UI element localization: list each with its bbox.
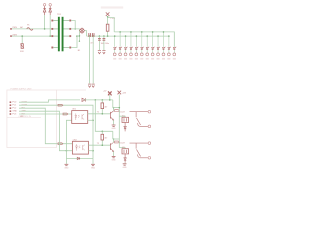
- wire base T1: [88, 113, 111, 115]
- wire LED stub 5: [135, 50, 137, 53]
- transformer pin left 3: [51, 35, 53, 37]
- LED D11: [168, 47, 171, 50]
- svg-text:T2: T2: [97, 143, 99, 145]
- svg-text:4k7: 4k7: [104, 138, 107, 140]
- pin circle NC K2: [148, 157, 151, 160]
- transformer pin left 2: [51, 28, 53, 30]
- wire LED hanger 9: [157, 36, 159, 47]
- connector pin JP1-1: [10, 101, 12, 103]
- supply +12V symbol: [106, 12, 110, 16]
- label pin 10: [162, 58, 165, 60]
- transformer pin right 3: [69, 35, 71, 37]
- wire emitter T2: [113, 152, 115, 156]
- wire ch2 feed: [95, 100, 113, 131]
- net flag row2: [58, 104, 63, 106]
- junction dot hanger 3: [125, 35, 127, 37]
- junction dot hanger 8: [152, 31, 154, 33]
- junction dot hanger 2: [119, 31, 121, 33]
- ground under link left: [65, 164, 69, 165]
- wire bridge output: [85, 31, 87, 36]
- wire row5: [19, 113, 72, 115]
- wire rail corner K1: [112, 100, 114, 108]
- wire AC line L: [11, 28, 52, 30]
- resistor R1: [101, 100, 103, 114]
- label pin 5: [135, 58, 138, 60]
- svg-text:GND: GND: [12, 111, 17, 113]
- capacitor C1: [89, 35, 91, 37]
- wire AC line N: [11, 35, 52, 37]
- svg-text:GND: GND: [123, 167, 128, 169]
- fuse F1: [27, 28, 33, 31]
- svg-text:K1: K1: [122, 115, 124, 117]
- junction dot hanger 4: [130, 31, 132, 33]
- wire LED hanger 11: [168, 36, 170, 47]
- transformer pin left 4: [51, 47, 53, 49]
- pin circle F3: [49, 4, 51, 6]
- label pin 11: [167, 58, 170, 60]
- pin circle out 2: [119, 53, 122, 56]
- LED D2: [119, 47, 122, 50]
- gnd arrow C1: [88, 84, 91, 87]
- wire LED stub 1: [114, 50, 116, 53]
- wire LED stub 10: [162, 50, 164, 53]
- junction dot bridge rail: [79, 35, 81, 37]
- supply +5V mid symbol: [108, 91, 112, 95]
- wire LED stub 11: [168, 50, 170, 53]
- wire opto2 emitter stub: [88, 150, 93, 152]
- pin circle out 5: [135, 53, 138, 56]
- pin circle out 3: [124, 53, 127, 56]
- svg-text:AC: AC: [20, 26, 23, 29]
- optocoupler OK1: [72, 111, 88, 124]
- supply +12V coils symbol: [118, 91, 122, 95]
- wire LED hanger 10: [162, 32, 164, 47]
- svg-text:K2: K2: [122, 147, 124, 149]
- junction dot hanger 1: [114, 35, 116, 37]
- net flag row3: [58, 143, 63, 145]
- wire rail to coil drop K1: [113, 107, 120, 109]
- junction dot hanger 10: [163, 31, 165, 33]
- connector pin JP1-4: [10, 110, 12, 112]
- wire emitter T1: [113, 120, 115, 124]
- wire LED stub 2: [119, 50, 121, 53]
- junction dot hanger 9: [157, 35, 159, 37]
- wire coil supply drop: [118, 95, 120, 148]
- fuse F3: [49, 6, 51, 15]
- capacitor C3: [99, 35, 101, 37]
- wire varistor drop: [21, 36, 23, 44]
- pin circle NC K1: [148, 125, 151, 128]
- label pin 2: [119, 58, 122, 60]
- wire row4: [19, 111, 72, 151]
- optocoupler OK2: [72, 141, 88, 154]
- pin circle out 4: [130, 53, 133, 56]
- wire +5V stem: [109, 95, 111, 100]
- label pin 9: [157, 58, 160, 60]
- svg-text:POWER SUPPLY UNIT: POWER SUPPLY UNIT: [11, 88, 33, 90]
- bridge rectifier B1: [79, 28, 84, 33]
- junction dot base T2: [102, 144, 104, 146]
- LED D6: [141, 47, 144, 50]
- junction dot hanger 5: [136, 35, 138, 37]
- wire LED hanger 8: [152, 32, 154, 47]
- connector pin JP1-3: [10, 107, 12, 109]
- wire LED hanger 12: [173, 32, 175, 47]
- wire gnd stub left2: [65, 158, 67, 164]
- capacitor C4: [103, 35, 105, 37]
- junction dot R R1: [102, 99, 104, 101]
- junction dot hanger 6: [141, 31, 143, 33]
- pin circle out 9: [157, 53, 160, 56]
- net flag coil K2: [115, 141, 120, 143]
- svg-text:GND: GND: [112, 128, 117, 130]
- gnd arrow C3: [98, 51, 101, 54]
- transformer pin right 1: [69, 20, 71, 22]
- junction dot hanger 7: [146, 35, 148, 37]
- capacitor C2: [92, 35, 94, 37]
- wire coil feed K2: [119, 148, 125, 149]
- diode freewheel K2: [124, 154, 126, 163]
- wire base T2: [88, 144, 110, 146]
- wire LED hanger 1: [114, 36, 116, 47]
- supply stem T1: [108, 92, 112, 96]
- wire rail1: [84, 99, 113, 101]
- ground coil2: [123, 164, 127, 165]
- svg-text:T1: T1: [97, 112, 99, 114]
- wire bridge down: [78, 31, 80, 42]
- wire coil2 gnd stub: [124, 162, 126, 165]
- junction dot +5V rail: [109, 99, 111, 101]
- pin circle out 11: [167, 53, 170, 56]
- wire LED hanger 3: [125, 36, 127, 47]
- wire rail to coil drop K2: [113, 138, 120, 140]
- junction dot F3: [49, 35, 51, 37]
- wire opto1 cathode down: [66, 120, 71, 158]
- junction dot coil feed 1: [119, 107, 121, 109]
- svg-text:GND: GND: [112, 160, 117, 162]
- svg-text:GND: GND: [64, 168, 69, 170]
- svg-text:BC547: BC547: [119, 143, 125, 145]
- varistor R7: [21, 44, 23, 49]
- wire coil feed K1: [119, 116, 125, 117]
- pin AC N: [10, 35, 12, 37]
- label pin 7: [146, 58, 149, 60]
- wire secondary pin1: [71, 21, 75, 29]
- relay coil K2: [122, 149, 129, 154]
- transformer TR1 core bar left: [58, 17, 60, 52]
- wire collector T2: [113, 139, 115, 142]
- junction dot bridge bottom: [79, 41, 80, 42]
- pin circle NO K1: [148, 110, 151, 113]
- pin circle F2: [43, 4, 45, 6]
- transformer pin right 4: [69, 47, 71, 49]
- relay contact K1: [130, 112, 148, 127]
- svg-text:+12V: +12V: [122, 93, 127, 95]
- wire LED hanger 4: [130, 32, 132, 47]
- junction dot secondary bottom: [76, 35, 78, 37]
- label pin 3: [124, 58, 127, 60]
- label pin 4: [129, 58, 132, 60]
- LED D8: [152, 47, 155, 50]
- fuse F2: [44, 6, 46, 15]
- wire secondary lower to rail: [77, 35, 79, 37]
- wire supply branch bus1: [108, 18, 115, 32]
- LED D10: [162, 47, 165, 50]
- pin circle out 10: [162, 53, 165, 56]
- ground emitter T1: [112, 125, 116, 126]
- wire secondary pin4 up: [71, 36, 77, 47]
- wire secondary pin2 to bridge: [71, 29, 79, 31]
- junction dot collector T2: [113, 138, 115, 140]
- wire LED stub 3: [125, 50, 127, 53]
- wire supply drop: [107, 17, 109, 36]
- wire row1 to rail1: [19, 100, 80, 102]
- junction dot ch2 feed: [95, 99, 97, 101]
- wire LED stub 12: [173, 50, 175, 53]
- wire LED stub 7: [146, 50, 148, 53]
- label pin 1: [113, 58, 116, 60]
- connector pin JP1-2: [10, 104, 12, 106]
- svg-text:GND: GND: [91, 168, 96, 170]
- ground under link right: [91, 164, 95, 165]
- svg-text:100n: 100n: [105, 43, 109, 45]
- wire collector T1: [113, 108, 115, 111]
- wire LED stub 6: [141, 50, 143, 53]
- junction dot collector T1: [113, 107, 115, 109]
- net flag coil K1: [115, 110, 120, 112]
- wire row2: [19, 105, 93, 158]
- junction dot R R2: [102, 131, 104, 133]
- wire F2 drop: [44, 15, 46, 29]
- pin circle out 12: [173, 53, 176, 56]
- pin circle out 7: [146, 53, 149, 56]
- pin circle out 8: [151, 53, 154, 56]
- net flag row5: [63, 113, 68, 115]
- wire row3: [19, 108, 72, 144]
- LED D1: [114, 47, 117, 50]
- svg-text:47u: 47u: [90, 43, 93, 45]
- diode D14 on gnd link: [77, 157, 79, 159]
- transistor T1: [109, 112, 111, 119]
- wire LED stub 9: [157, 50, 159, 53]
- transformer TR1 core bar right: [62, 17, 64, 52]
- diode D13 row1: [82, 98, 85, 101]
- junction dot opto1 emitter: [92, 120, 94, 122]
- ground emitter T2: [112, 156, 116, 157]
- wire gnd link under opto2: [66, 157, 93, 159]
- svg-text:230V: 230V: [12, 34, 17, 36]
- wire LED stub 8: [152, 50, 154, 53]
- transformer pin left 1: [51, 20, 53, 22]
- junction dot F2: [44, 28, 46, 30]
- pin circle out 6: [140, 53, 143, 56]
- wire F3 drop: [49, 15, 51, 36]
- gnd arrow C4: [102, 51, 105, 54]
- junction dot supply rail: [107, 35, 109, 37]
- frame box around input section: [7, 90, 86, 148]
- wire rail corner K2: [112, 131, 114, 139]
- junction dot gnd tap: [66, 150, 68, 152]
- label pin 8: [151, 58, 154, 60]
- wire LED hanger 7: [146, 36, 148, 47]
- wire opto1 emitter stub: [88, 119, 93, 121]
- gnd arrow C2: [92, 84, 95, 87]
- label pin 12: [173, 58, 176, 60]
- junction dot varistor tap: [21, 35, 23, 37]
- junction dot supply: [107, 16, 109, 18]
- wire LED hanger 6: [141, 32, 143, 47]
- wire LED hanger 5: [135, 36, 137, 47]
- wire bus1: [114, 32, 174, 47]
- faint text row: [101, 6, 123, 8]
- junction dot hanger 11: [168, 35, 170, 37]
- svg-text:4k7: 4k7: [104, 106, 107, 108]
- LED D3: [125, 47, 128, 50]
- connector pin JP1-5: [10, 113, 12, 115]
- LED D7: [146, 47, 149, 50]
- svg-text:+12V: +12V: [110, 18, 115, 20]
- pin AC L: [10, 28, 12, 30]
- junction dot opto2 emitter: [92, 150, 94, 152]
- LED D12: [173, 47, 176, 50]
- resistor R2: [101, 131, 103, 145]
- LED D9: [157, 47, 160, 50]
- resistor R5: [106, 24, 109, 31]
- junction dot base T1: [102, 113, 104, 115]
- transformer pin right 2: [69, 28, 71, 30]
- wire LED hanger 2: [119, 32, 121, 47]
- pin circle NO K2: [148, 142, 151, 145]
- wire main rail: [87, 35, 169, 37]
- wire LED stub 4: [130, 50, 132, 53]
- relay coil K1: [122, 117, 129, 122]
- relay contact K2: [130, 143, 148, 158]
- LED D5: [135, 47, 138, 50]
- label pin 6: [140, 58, 143, 60]
- diode freewheel K1: [124, 123, 126, 132]
- transistor T2: [109, 143, 111, 150]
- LED D4: [130, 47, 133, 50]
- junction dot secondary top: [74, 28, 76, 30]
- pin circle out 1: [113, 53, 116, 56]
- svg-text:230V: 230V: [12, 27, 17, 29]
- wire gnd stub right2: [92, 158, 94, 164]
- svg-text:BC547: BC547: [119, 111, 125, 113]
